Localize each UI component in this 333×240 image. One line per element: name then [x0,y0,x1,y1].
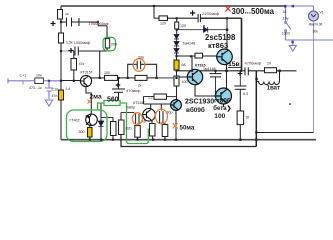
svg-text:10: 10 [245,115,249,119]
svg-text:6,3: 6,3 [243,92,248,96]
svg-text:1,2: 1,2 [148,96,153,100]
svg-text:2ма: 2ма [90,93,102,100]
svg-text:20р: 20р [138,56,144,60]
svg-text:10: 10 [267,62,271,66]
svg-text:КТ315Г: КТ315Г [81,71,93,75]
svg-text:х6: х6 [142,120,146,124]
svg-text:100: 100 [104,71,110,75]
svg-text:470...1к: 470...1к [29,86,42,90]
svg-text:10к: 10к [36,74,42,78]
svg-text:120: 120 [160,21,166,25]
svg-text:47н: 47н [52,94,58,98]
svg-text:100: 100 [182,80,188,84]
svg-text:2к: 2к [138,83,142,87]
svg-text:1м4148: 1м4148 [203,67,215,71]
svg-text:680р: 680р [127,106,135,110]
svg-text:4700мкф: 4700мкф [245,61,262,66]
svg-text:1м4148: 1м4148 [183,41,195,45]
svg-text:КТ315Г: КТ315Г [133,101,145,105]
svg-text:300: 300 [232,7,246,16]
svg-text:100: 100 [214,113,225,120]
svg-text:500ма: 500ма [251,7,275,16]
svg-text:47к: 47к [79,62,85,66]
svg-text:30к: 30к [313,30,319,34]
svg-text:470мкф: 470мкф [126,88,141,93]
svg-text:15в: 15в [228,61,240,68]
svg-text:бета❯: бета❯ [213,105,231,112]
svg-text:С10: С10 [52,87,59,91]
svg-text:820: 820 [126,127,132,131]
svg-text:2.4у: 2.4у [283,17,289,21]
svg-text:вб09б: вб09б [186,106,205,114]
svg-text:кт863: кт863 [208,41,228,50]
svg-text:560: 560 [107,96,119,103]
svg-text:1,4: 1,4 [65,87,70,91]
svg-text:300: 300 [79,130,85,134]
svg-text:1ват: 1ват [267,84,281,91]
svg-text:1000г: 1000г [282,32,291,36]
svg-text:2SC1930: 2SC1930 [185,99,214,106]
svg-text:Rвет0.06: Rвет0.06 [309,23,323,27]
svg-text:ГТ402: ГТ402 [70,119,80,123]
svg-text:V1: V1 [320,10,324,14]
svg-text:120: 120 [180,24,186,28]
svg-text:2200мкф: 2200мкф [202,11,219,16]
svg-text:68: 68 [182,63,186,67]
svg-text:1000мкф: 1000мкф [74,40,91,45]
svg-text:С+1: С+1 [20,74,27,78]
svg-text:1000000мк: 1000000мк [89,21,109,26]
svg-text:30р: 30р [167,111,173,115]
svg-text:50ма: 50ма [180,125,195,132]
svg-text:гт806: гт806 [214,97,231,104]
svg-text:200: 200 [111,43,117,47]
svg-text:1к: 1к [65,12,69,16]
svg-text:1,5к: 1,5к [66,41,73,45]
